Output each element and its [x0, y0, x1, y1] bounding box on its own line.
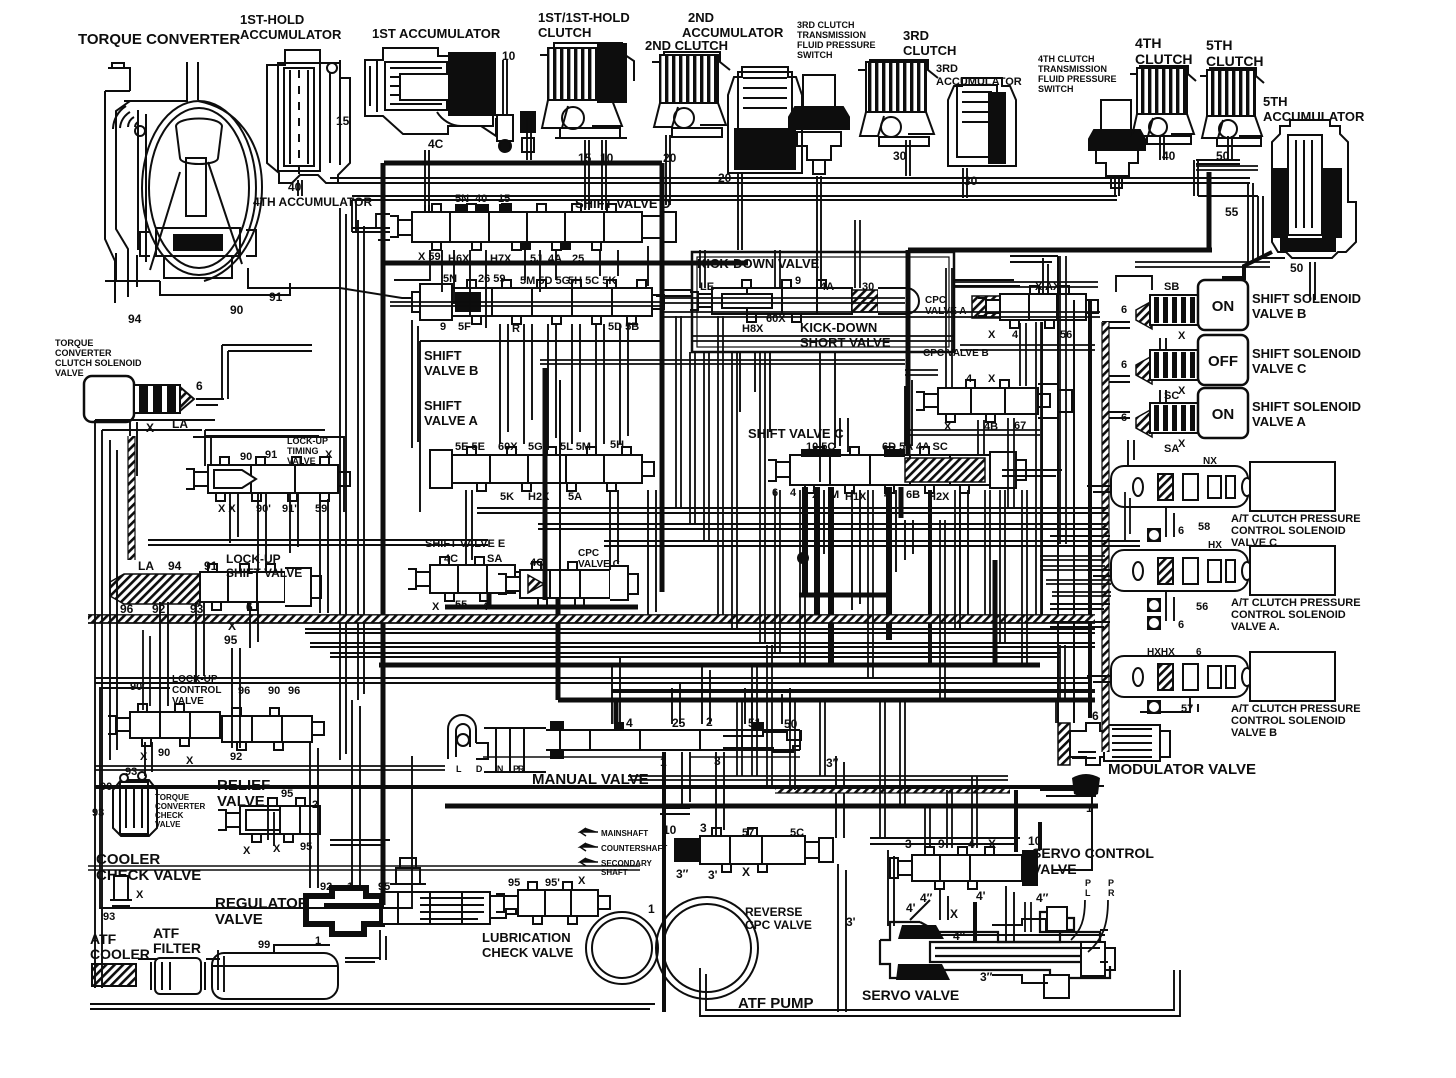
wire mv up2 — [672, 682, 680, 724]
wire bus 778 — [628, 776, 1008, 780]
lock-up shift valve — [200, 564, 297, 610]
wire bus 510 — [477, 508, 1108, 513]
wire kd right — [954, 280, 1020, 286]
1st accumulator — [365, 48, 493, 134]
svg-text:25: 25 — [672, 716, 686, 730]
svg-text:4TH CLUTCH: 4TH CLUTCH — [1038, 54, 1095, 64]
junction fitting 57 — [1147, 700, 1161, 714]
wire thick vertical x662 — [660, 163, 665, 592]
wire bus 615 edge — [88, 614, 1095, 616]
svg-text:FLUID PRESSURE: FLUID PRESSURE — [1038, 74, 1117, 84]
wire 55 to 5th accum — [1222, 252, 1272, 278]
shift valve D extension — [642, 212, 676, 242]
wire filter-tank — [206, 958, 220, 960]
wire 3rd switch drop — [817, 176, 821, 288]
svg-text:SHIFT SOLENOID: SHIFT SOLENOID — [1252, 291, 1361, 306]
wire bus 314 — [660, 312, 1100, 317]
A/T clutch pressure control solenoid valve C body — [1111, 466, 1248, 507]
svg-text:4': 4' — [906, 901, 916, 915]
wire mid drop 14 — [1036, 322, 1041, 615]
svg-text:CONVERTER: CONVERTER — [55, 348, 112, 358]
shift valve C thick bottom stems — [802, 487, 808, 545]
wire kd left — [656, 290, 692, 296]
check ball fitting 10-line — [497, 112, 535, 152]
wire servo drop b — [752, 665, 757, 776]
svg-text:91: 91 — [269, 290, 283, 304]
shift valve E — [408, 557, 527, 601]
svg-text:1ST-HOLD: 1ST-HOLD — [240, 12, 304, 27]
wire mid drop 6 — [775, 490, 780, 653]
svg-text:MAINSHAFT: MAINSHAFT — [601, 829, 648, 838]
1st-hold accumulator — [267, 50, 350, 183]
wire sol C feed — [1102, 376, 1130, 382]
wire thick main top — [384, 161, 662, 166]
wire svC below 2 — [852, 490, 860, 610]
wire 30 drop — [906, 140, 910, 176]
svg-text:SHIFT VALVE C: SHIFT VALVE C — [748, 426, 844, 441]
3rd accumulator black band — [988, 92, 1006, 164]
svg-text:P: P — [513, 764, 519, 774]
wire tank v — [218, 950, 224, 992]
wire thick reg left — [324, 903, 384, 907]
svg-text:SHIFT SOLENOID: SHIFT SOLENOID — [1252, 399, 1361, 414]
svg-text:ACCUMULATOR: ACCUMULATOR — [1263, 109, 1365, 124]
svg-text:51: 51 — [748, 716, 762, 730]
svg-text:3RD: 3RD — [936, 63, 958, 75]
wire thick right top — [908, 248, 1212, 253]
wire SC drop — [1160, 338, 1166, 350]
wire sd below d — [600, 250, 618, 276]
wire 1st-hold drop — [298, 180, 302, 196]
svg-text:COUNTERSHAFT: COUNTERSHAFT — [601, 844, 667, 853]
svg-text:91: 91 — [204, 559, 218, 573]
svg-text:OFF: OFF — [1208, 353, 1238, 370]
svg-text:4B: 4B — [984, 421, 998, 433]
svg-text:91: 91 — [265, 449, 277, 461]
2nd accumulator — [728, 67, 802, 173]
svg-text:X: X — [988, 373, 996, 385]
svg-text:1ST/1ST-HOLD: 1ST/1ST-HOLD — [538, 10, 630, 25]
svg-text:A/T CLUTCH PRESSURE: A/T CLUTCH PRESSURE — [1231, 703, 1361, 715]
svg-text:60X: 60X — [498, 441, 518, 453]
svg-text:P: P — [1108, 878, 1114, 888]
shift solenoid valve A coil — [1150, 403, 1200, 433]
wire hatched main vert x1105 — [1102, 322, 1109, 752]
lock-up control valve right — [222, 708, 324, 750]
wire thick 665 — [379, 663, 1040, 668]
wire kd top drop — [700, 250, 705, 288]
torque converter clutch solenoid valve coil — [134, 385, 194, 413]
wire kd down — [740, 352, 770, 432]
CPC valve A hatched end — [972, 296, 1000, 318]
svg-text:SWITCH: SWITCH — [797, 50, 833, 60]
A/T clutch pressure control solenoid valve A body — [1111, 550, 1248, 591]
svg-text:CPC: CPC — [925, 295, 946, 306]
wire bus 645 — [310, 643, 1095, 647]
shift valve D port blocks — [455, 204, 467, 213]
wire svB below 3 — [548, 324, 556, 450]
svg-text:6B: 6B — [906, 489, 920, 501]
svg-text:99: 99 — [258, 939, 270, 951]
svg-text:94: 94 — [128, 312, 142, 326]
svg-text:3RD CLUTCH: 3RD CLUTCH — [797, 20, 855, 30]
torque converter clutch solenoid valve body — [84, 376, 134, 422]
wire svC right — [1002, 470, 1062, 476]
svg-text:X: X — [140, 751, 148, 763]
wire h432 — [908, 430, 1040, 435]
wire svA below — [466, 490, 472, 565]
wire thick mv down 1 — [662, 752, 666, 1012]
wire right pair — [1060, 256, 1066, 544]
wire servo loop b — [706, 970, 1174, 1010]
svg-text:X: X — [243, 845, 251, 857]
svg-text:TORQUE: TORQUE — [155, 793, 190, 802]
A/T CPC solenoid valve B box — [1250, 652, 1335, 701]
wire 15 drop — [585, 140, 589, 210]
relief valve — [218, 798, 320, 842]
wire mid drop 8 — [868, 490, 873, 678]
wire bus 526 — [538, 524, 1108, 529]
shift valve A — [430, 447, 654, 491]
svg-text:A/T CLUTCH PRESSURE: A/T CLUTCH PRESSURE — [1231, 513, 1361, 525]
wire sol B feed — [1102, 322, 1130, 328]
wire mid drop 9 — [940, 520, 945, 700]
svg-text:5H 5C 5K: 5H 5C 5K — [568, 275, 616, 287]
shift valve D — [390, 204, 654, 250]
svg-text:A/T CLUTCH PRESSURE: A/T CLUTCH PRESSURE — [1231, 597, 1361, 609]
wire SB up — [1116, 276, 1152, 292]
svg-text:1: 1 — [648, 902, 655, 916]
svg-text:R: R — [1108, 888, 1115, 898]
svg-text:92: 92 — [152, 602, 166, 616]
5th accumulator black bands — [1272, 168, 1288, 238]
svg-text:X: X — [136, 889, 144, 901]
cooler check valve stem — [110, 876, 132, 906]
wire svB left — [412, 320, 418, 448]
wire thick valveE down — [487, 593, 492, 607]
svg-text:1ST ACCUMULATOR: 1ST ACCUMULATOR — [372, 26, 501, 41]
wire relief-reg — [330, 840, 390, 845]
CPC valve C hatched detail — [528, 575, 544, 593]
lock-up timing valve — [186, 457, 350, 501]
torque converter check valve — [113, 772, 157, 836]
svg-text:CONVERTER: CONVERTER — [155, 802, 205, 811]
wire mid drop 12 — [1000, 490, 1005, 643]
wire mid drop 11 — [985, 490, 990, 615]
wire sd below c — [525, 250, 556, 292]
svg-text:M: M — [830, 489, 839, 501]
wire tank-reg — [345, 958, 380, 962]
wire mid drop 10 — [955, 490, 960, 629]
wire relief v — [268, 800, 274, 846]
ATF cooler — [92, 964, 136, 986]
svg-text:LA: LA — [138, 559, 154, 573]
junction fitting 56 — [1147, 528, 1161, 542]
wire bus 680 — [95, 678, 1090, 683]
A/T CPC solenoid valve B inner parts — [1133, 664, 1252, 690]
svg-text:P: P — [1085, 878, 1091, 888]
wire mid drop 1 — [690, 352, 695, 524]
manual valve handle — [448, 715, 546, 772]
wire kd top drop c — [855, 220, 860, 288]
wire servo drop d — [790, 700, 795, 790]
CPC valve A — [978, 286, 1098, 328]
svg-text:SHIFT SOLENOID: SHIFT SOLENOID — [1252, 346, 1361, 361]
A/T clutch pressure control solenoid valve B body — [1111, 656, 1248, 697]
svg-text:5G: 5G — [528, 441, 543, 453]
svg-text:SHIFT: SHIFT — [424, 348, 462, 363]
svg-text:92: 92 — [230, 751, 242, 763]
wire atc link — [1125, 492, 1130, 540]
svg-text:ATF: ATF — [153, 925, 180, 941]
svg-text:VALVE: VALVE — [287, 456, 316, 466]
junction fitting 6b — [1147, 616, 1161, 630]
3rd clutch transmission fluid pressure switch — [789, 75, 849, 174]
regulator bolt — [390, 858, 426, 884]
wire to 5th accum — [1198, 196, 1285, 258]
wire servo v3 — [1006, 886, 1014, 942]
svg-text:X: X — [432, 601, 440, 613]
wire svB below 6 — [620, 324, 628, 444]
svg-text:94: 94 — [168, 559, 182, 573]
wire lk down4 — [232, 648, 240, 748]
shift valve A left cap — [430, 450, 452, 488]
wire 4pp diag — [910, 900, 930, 920]
lubrication check valve — [496, 882, 610, 924]
wire cpcA up — [1043, 258, 1048, 294]
shift solenoid valve C coil — [1150, 350, 1200, 380]
svg-text:6D 5A 4A SC: 6D 5A 4A SC — [882, 441, 948, 453]
svg-text:ATF: ATF — [90, 931, 117, 947]
wire atc v1 — [1166, 507, 1174, 537]
A/T CPC solenoid valve A box — [1250, 546, 1335, 595]
svg-text:15: 15 — [336, 114, 350, 128]
svg-text:15: 15 — [498, 193, 510, 205]
svg-text:92: 92 — [320, 881, 332, 893]
wire servo p4 — [972, 776, 977, 848]
svg-text:6: 6 — [1121, 359, 1127, 371]
wire thick 10 servo — [1014, 790, 1018, 852]
svg-text:30: 30 — [862, 281, 874, 293]
shift solenoid valve C state box — [1198, 335, 1248, 385]
svg-text:MODULATOR VALVE: MODULATOR VALVE — [1108, 761, 1256, 778]
wire lk down3 — [250, 602, 258, 648]
wire mid drop 13 — [1022, 490, 1027, 665]
wire svC up b — [840, 418, 848, 452]
svg-text:5F: 5F — [458, 321, 471, 333]
wire cooler-filter — [138, 958, 158, 960]
wire servo PL PR curves — [1071, 900, 1108, 952]
wire svB below 2 — [524, 324, 532, 444]
kick-down valve box — [692, 252, 954, 352]
wire 5th feed — [1196, 166, 1258, 170]
svg-text:93: 93 — [103, 911, 115, 923]
wire bus 543 — [604, 541, 1140, 546]
svg-text:LUBRICATION: LUBRICATION — [482, 930, 571, 945]
svg-text:ACCUMULATOR: ACCUMULATOR — [936, 76, 1022, 88]
wire 30 drop b — [963, 168, 967, 198]
wire sol A feed — [1102, 412, 1130, 418]
wire atc h0 — [1040, 556, 1105, 560]
wire servo drop c — [767, 645, 772, 787]
4th clutch transmission fluid pressure switch — [1089, 100, 1145, 188]
svg-text:57: 57 — [1181, 703, 1193, 715]
svg-text:5H: 5H — [610, 439, 624, 451]
svg-text:SHIFT: SHIFT — [424, 398, 462, 413]
wire sc right — [1040, 790, 1096, 796]
wire lk v1 — [230, 493, 238, 543]
wire top bus 178 — [330, 178, 1250, 183]
svg-text:3RD: 3RD — [903, 28, 929, 43]
wire mid drop 2 — [704, 352, 709, 541]
servo control valve black end — [1022, 850, 1038, 886]
wire mid drop 4 — [732, 352, 737, 629]
wire bottom rail — [90, 1004, 655, 1009]
mainshaft countershaft secondary shaft arrows — [580, 828, 598, 866]
wire bus hatched 790 — [775, 787, 1010, 793]
wire thick main vertical x383 — [381, 163, 386, 905]
svg-text:3″: 3″ — [676, 867, 689, 881]
kick-down spool black detail — [722, 294, 772, 308]
wire atc h2 — [1046, 580, 1111, 584]
wire thick x930 — [928, 490, 932, 665]
shift solenoid valve B state box — [1198, 280, 1248, 330]
svg-text:4TH ACCUMULATOR: 4TH ACCUMULATOR — [253, 195, 372, 209]
wire h370 — [905, 370, 938, 375]
wire SA drop — [1160, 390, 1166, 404]
svg-text:26 59: 26 59 — [478, 273, 506, 285]
svg-text:TRANSMISSION: TRANSMISSION — [1038, 64, 1107, 74]
wire servo inner — [935, 935, 1105, 948]
wire right drop a — [1060, 645, 1065, 700]
svg-text:5M 5D 5G: 5M 5D 5G — [520, 275, 570, 287]
svg-text:90: 90 — [240, 451, 252, 463]
shift valve B left cap — [412, 284, 452, 320]
wire kd down b — [820, 352, 835, 482]
wire servo v — [888, 850, 894, 926]
svg-text:R: R — [512, 323, 520, 335]
svg-text:SERVO VALVE: SERVO VALVE — [862, 987, 959, 1003]
wire left bundle 1 — [340, 208, 346, 760]
wire 40-50 join — [1196, 160, 1240, 164]
wire atc h3 — [1052, 592, 1111, 596]
junction fitting 6 — [1147, 598, 1161, 612]
svg-text:FILTER: FILTER — [153, 940, 201, 956]
wire thick drop to manual 4 — [614, 700, 619, 724]
svg-text:5K: 5K — [500, 491, 514, 503]
svg-text:SHIFT VALVE: SHIFT VALVE — [226, 566, 302, 580]
reverse CPC valve spool — [700, 828, 833, 872]
reverse CPC valve black end — [674, 838, 700, 862]
svg-text:SHORT VALVE: SHORT VALVE — [800, 335, 891, 350]
CPC valve B — [916, 380, 1050, 422]
svg-text:CONTROL SOLENOID: CONTROL SOLENOID — [1231, 715, 1346, 727]
wire LA hatched vertical — [128, 436, 135, 560]
wire kd top drop b — [775, 250, 780, 288]
wire thick vertical x1209 — [1207, 172, 1212, 250]
wire h282 — [954, 282, 1098, 287]
svg-text:4TH: 4TH — [1135, 35, 1161, 51]
wire thick x545 — [543, 368, 548, 600]
wire lk down2 — [196, 602, 204, 682]
shift valve B black block — [455, 292, 481, 312]
wire cpc b feed — [946, 268, 952, 388]
5th clutch — [1200, 68, 1264, 146]
wire lk h — [148, 540, 488, 545]
wire thick vertical x908 — [906, 250, 911, 456]
wire thick 10 down — [1038, 822, 1042, 850]
wire sd below — [394, 250, 454, 304]
svg-text:VALVE: VALVE — [55, 368, 84, 378]
wire mv down 10 — [682, 752, 690, 808]
wire atc C left — [1087, 486, 1111, 492]
wire thick x995 — [993, 560, 998, 663]
wire svC mid down — [905, 520, 913, 560]
svg-text:SB: SB — [1164, 281, 1179, 293]
wire rg v1 — [310, 742, 318, 888]
wire svB below 5 — [596, 324, 604, 450]
svg-text:CLUTCH SOLENOID: CLUTCH SOLENOID — [55, 358, 142, 368]
svg-text:60X: 60X — [766, 313, 786, 325]
wire thick 787 — [95, 785, 1095, 789]
wire drop right 50 — [1248, 183, 1253, 262]
wire atc feed3 — [1050, 622, 1110, 627]
svg-text:ON: ON — [1212, 298, 1235, 315]
lock-up shift valve right cap — [285, 568, 321, 606]
svg-text:6: 6 — [1178, 619, 1184, 631]
wire lk top v — [205, 430, 211, 466]
4th clutch — [1130, 66, 1196, 144]
wire timing enclosure — [193, 437, 344, 512]
wire tcc down — [130, 422, 137, 482]
svg-text:VALVE B: VALVE B — [1231, 727, 1277, 739]
svg-text:9: 9 — [440, 321, 446, 333]
wire shift valve B frame — [420, 341, 660, 512]
manual valve lower line — [483, 756, 800, 758]
wire atc h1 — [1040, 566, 1105, 570]
wire mv up3 — [702, 664, 710, 724]
wire lk v2 — [258, 493, 266, 573]
svg-text:58: 58 — [1198, 521, 1210, 533]
wire tcc right — [196, 399, 224, 405]
ATF pump gear 2 — [656, 897, 758, 999]
wire mid drop 7 — [800, 490, 805, 665]
svg-text:3: 3 — [700, 821, 707, 835]
svg-text:CONTROL SOLENOID: CONTROL SOLENOID — [1231, 609, 1346, 621]
wire llc feed up — [143, 630, 150, 710]
svg-text:4C: 4C — [530, 557, 544, 569]
3rd accumulator — [948, 78, 1016, 166]
ATF pump gear 1 — [586, 912, 658, 984]
wire llc v — [145, 742, 152, 776]
svg-text:CLUTCH: CLUTCH — [1206, 53, 1264, 69]
wire svC below 3 — [888, 490, 896, 578]
svg-text:2ND: 2ND — [688, 10, 714, 25]
svg-text:3': 3' — [708, 868, 718, 882]
2nd accumulator black bottom — [734, 128, 796, 170]
wire thick mid x383-748 — [383, 261, 748, 266]
svg-text:X: X — [1178, 385, 1186, 397]
torque converter — [105, 62, 440, 303]
wire thick 808 — [445, 804, 1098, 809]
modulator valve lower blob — [1072, 774, 1100, 797]
wire mid drop 0 — [676, 316, 681, 508]
svg-text:96: 96 — [288, 685, 300, 697]
svg-text:90: 90 — [158, 747, 170, 759]
svg-text:5N: 5N — [455, 193, 469, 205]
wire thick 595 — [799, 593, 891, 598]
wire left bundle 2 — [358, 220, 364, 700]
